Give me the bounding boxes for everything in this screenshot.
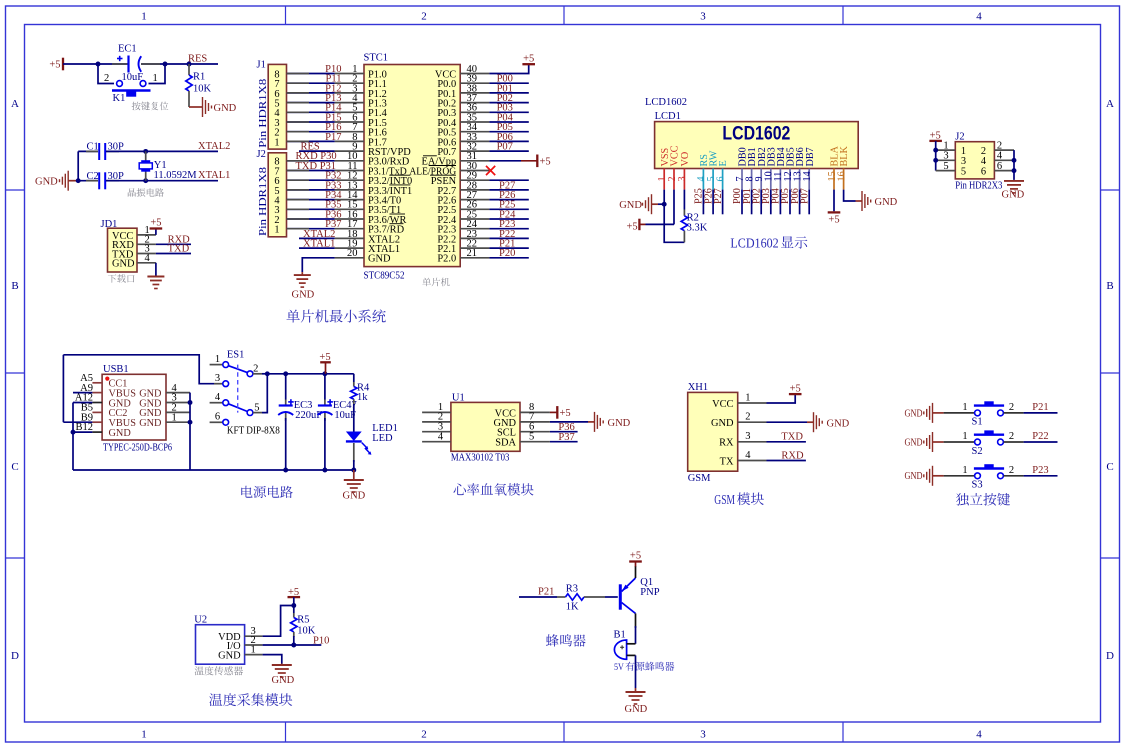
svg-text:2: 2 xyxy=(1009,431,1014,442)
junction dots crystal xyxy=(143,149,148,154)
net TXD wire (gsm) xyxy=(767,441,806,443)
wire net RES row xyxy=(299,150,335,152)
svg-text:GND: GND xyxy=(905,437,923,448)
usb pin stubs left xyxy=(92,382,102,384)
svg-text:GND: GND xyxy=(214,103,237,114)
svg-text:P07: P07 xyxy=(799,188,810,204)
svg-text:+5: +5 xyxy=(540,156,551,167)
svg-text:P07: P07 xyxy=(497,142,513,153)
wire net XTAL1 row xyxy=(299,247,335,249)
svg-text:16: 16 xyxy=(836,171,847,181)
svg-text:4: 4 xyxy=(438,432,444,443)
svg-text:GND: GND xyxy=(272,675,295,686)
push button S1 xyxy=(975,410,981,416)
ground (power) xyxy=(353,470,355,480)
svg-text:1: 1 xyxy=(274,137,279,148)
svg-text:S3: S3 xyxy=(972,480,983,491)
connector J2 box xyxy=(955,142,994,179)
lcd pin stubs + numbers xyxy=(663,169,665,190)
svg-text:1: 1 xyxy=(172,412,177,423)
svg-text:S2: S2 xyxy=(972,446,983,457)
power port +5 (reset) xyxy=(62,58,64,71)
lcd pin16 wire to gnd xyxy=(844,190,856,201)
svg-text:B: B xyxy=(11,280,18,292)
label 心率血氧模块 xyxy=(453,483,533,495)
resistor R1 xyxy=(188,64,190,75)
wire VBUS to switch xyxy=(63,355,214,384)
svg-text:XTAL1: XTAL1 xyxy=(303,239,335,250)
ground (lcd VSS) xyxy=(652,203,659,205)
svg-text:XH1: XH1 xyxy=(688,382,708,393)
capacitor EC47 xyxy=(324,374,326,400)
svg-text:1: 1 xyxy=(141,729,147,741)
svg-text:4: 4 xyxy=(745,450,751,461)
svg-text:TXD: TXD xyxy=(781,432,803,443)
svg-text:1k: 1k xyxy=(357,392,368,403)
svg-text:U2: U2 xyxy=(194,614,207,625)
svg-text:P20: P20 xyxy=(499,248,515,259)
wires J2 to mcu P30-P37 xyxy=(287,160,335,162)
svg-text:GND: GND xyxy=(905,408,923,419)
J2 right wires xyxy=(994,149,1014,151)
svg-text:GND: GND xyxy=(608,418,631,429)
ground (buzzer) xyxy=(635,688,637,692)
mcu right net wires P00-P07 xyxy=(489,82,528,84)
mcu right pin stubs xyxy=(460,73,489,75)
label 温度传感器 xyxy=(195,666,243,675)
svg-text:3: 3 xyxy=(700,729,706,741)
svg-text:GND: GND xyxy=(1002,190,1025,201)
svg-text:P37: P37 xyxy=(558,432,574,443)
svg-text:D: D xyxy=(1106,650,1114,662)
chip U1 box xyxy=(451,402,520,451)
svg-text:4: 4 xyxy=(145,253,151,264)
svg-text:BLK: BLK xyxy=(839,145,850,166)
svg-text:ES1: ES1 xyxy=(227,350,245,361)
label 单片机 xyxy=(422,278,449,287)
wire S2 left xyxy=(944,441,975,443)
capacitor C1 xyxy=(78,150,98,152)
lcd pin15 wire to +5 xyxy=(833,190,835,212)
ground (temp) xyxy=(281,664,283,666)
resistor R3 xyxy=(557,596,566,598)
svg-text:J2: J2 xyxy=(955,132,964,143)
svg-text:6: 6 xyxy=(981,167,986,178)
svg-text:LCD1602: LCD1602 xyxy=(722,123,790,145)
label 温度采集模块 xyxy=(209,693,292,706)
ground (gsm) xyxy=(807,421,814,423)
mcu overlines xyxy=(389,174,410,176)
mcu left pin stubs xyxy=(335,73,364,75)
wires J1 to mcu P10-P17 xyxy=(287,73,335,75)
svg-text:30P: 30P xyxy=(108,142,125,153)
wire from button K1 right xyxy=(149,64,166,84)
mcu STC1 box xyxy=(364,65,460,267)
junction dot crystal gnd xyxy=(76,178,81,183)
svg-text:C1: C1 xyxy=(87,142,99,153)
wire crystal left vertical xyxy=(77,151,79,180)
ground (JD1) xyxy=(155,263,157,277)
svg-text:+5: +5 xyxy=(319,352,330,363)
svg-text:LCD1602: LCD1602 xyxy=(645,97,687,108)
svg-text:P21: P21 xyxy=(538,586,554,597)
svg-text:GND: GND xyxy=(139,418,162,429)
svg-text:LCD1: LCD1 xyxy=(655,111,681,122)
svg-text:GSM: GSM xyxy=(688,473,711,484)
led LED1 xyxy=(346,432,362,442)
svg-text:VO: VO xyxy=(680,152,691,167)
svg-text:STC1: STC1 xyxy=(364,53,389,64)
JD1 pin stubs xyxy=(137,234,156,236)
label 电源电路 xyxy=(241,486,292,498)
lcd wires pins 4-14 + vertical net labels xyxy=(702,190,704,215)
resistor R4 xyxy=(353,374,355,382)
wire buzzer to gnd xyxy=(635,655,637,688)
U2 pin stubs xyxy=(245,635,263,637)
svg-text:1: 1 xyxy=(962,402,967,413)
wire U2 VDD to +5 xyxy=(263,606,294,637)
svg-text:6: 6 xyxy=(715,176,726,181)
svg-text:J1: J1 xyxy=(257,60,266,71)
svg-text:USB1: USB1 xyxy=(103,364,129,375)
svg-text:4: 4 xyxy=(215,392,221,403)
svg-text:+5: +5 xyxy=(828,215,839,226)
wire gsm gnd xyxy=(767,421,808,423)
wire usb GND left vertical xyxy=(73,402,92,404)
resistor R5 xyxy=(293,606,295,614)
svg-text:JD1: JD1 xyxy=(101,219,118,230)
svg-text:B1: B1 xyxy=(614,629,626,640)
svg-text:TXD: TXD xyxy=(168,244,190,255)
svg-text:5V: 5V xyxy=(614,662,625,673)
svg-text:GND: GND xyxy=(35,177,58,188)
svg-text:Pin HDR2X3: Pin HDR2X3 xyxy=(955,180,1002,191)
svg-text:1: 1 xyxy=(215,354,220,365)
svg-text:LED: LED xyxy=(372,433,393,444)
svg-text:VCC: VCC xyxy=(712,399,733,410)
svg-text:GND: GND xyxy=(875,197,898,208)
svg-text:K1: K1 xyxy=(113,93,126,104)
svg-text:2: 2 xyxy=(104,73,109,84)
svg-text:5: 5 xyxy=(254,402,259,413)
resistor R2 xyxy=(683,190,685,210)
power port +5 (buzzer) xyxy=(635,566,637,578)
svg-text:1: 1 xyxy=(962,465,967,476)
power port +5 (gsm) xyxy=(767,395,796,403)
wire +5 rail xyxy=(267,373,354,375)
net RXD wire xyxy=(156,243,191,245)
push button S3 xyxy=(975,473,981,479)
svg-text:P23: P23 xyxy=(1032,465,1048,476)
svg-text:21: 21 xyxy=(467,248,478,259)
capacitor EC1 leads xyxy=(112,63,128,65)
push button K1 xyxy=(117,81,123,87)
svg-text:+5: +5 xyxy=(560,408,571,419)
svg-text:+5: +5 xyxy=(790,383,801,394)
no-connect X pin30 xyxy=(489,170,490,172)
capacitor C2 xyxy=(78,180,98,182)
svg-text:GND: GND xyxy=(292,290,315,301)
wire to button K1 left xyxy=(98,64,114,84)
svg-text:KFT DIP-8X8: KFT DIP-8X8 xyxy=(227,426,280,437)
svg-text:P10: P10 xyxy=(313,635,329,646)
wire S3 left xyxy=(944,475,975,477)
header J2 box xyxy=(268,153,286,237)
svg-text:A: A xyxy=(1106,98,1114,110)
svg-text:20: 20 xyxy=(347,248,358,259)
svg-text:+5: +5 xyxy=(523,53,534,64)
svg-text:R1: R1 xyxy=(193,72,205,83)
wire VBUS net left xyxy=(73,392,92,394)
svg-text:RX: RX xyxy=(719,438,734,449)
svg-text:11.0592M: 11.0592M xyxy=(154,170,198,181)
push button S2 xyxy=(975,439,981,445)
svg-text:GND: GND xyxy=(109,428,132,439)
ground (reset R1) xyxy=(189,106,196,108)
label 独立按键 xyxy=(956,493,1010,506)
svg-text:VCC: VCC xyxy=(670,145,681,166)
wire U2 gnd xyxy=(263,655,282,664)
power port +5 (power rail) xyxy=(320,361,331,363)
net RXD wire (gsm) xyxy=(767,460,806,462)
svg-text:LCD1602: LCD1602 xyxy=(730,236,778,251)
svg-text:2: 2 xyxy=(421,729,427,741)
capacitor EC3 xyxy=(285,374,287,400)
svg-text:GND: GND xyxy=(905,471,923,482)
wire switch pin5 to rail xyxy=(253,412,262,414)
svg-text:P21: P21 xyxy=(1032,402,1048,413)
svg-text:14: 14 xyxy=(802,171,813,181)
wire U2 I/O net P10 xyxy=(263,644,322,646)
svg-text:1: 1 xyxy=(251,644,256,655)
svg-text:S1: S1 xyxy=(972,417,983,428)
chip U2 box xyxy=(196,625,245,665)
svg-text:3: 3 xyxy=(700,11,706,23)
lcd LCD1 box xyxy=(655,122,859,169)
wire S1 left xyxy=(944,412,975,414)
power port +5 (mcu VCC) xyxy=(489,64,528,73)
label 蜂鸣器 xyxy=(546,634,586,647)
power port +5 (U1) xyxy=(550,411,557,413)
svg-text:J2: J2 xyxy=(257,149,266,160)
svg-text:P2.0: P2.0 xyxy=(437,254,456,265)
label 晶振电路 xyxy=(128,188,164,197)
wire RES main xyxy=(63,63,128,65)
net P37 wire xyxy=(550,441,578,443)
svg-text:DB7: DB7 xyxy=(805,147,816,166)
J2 left wires xyxy=(936,149,956,151)
wire S1 right / net P21 xyxy=(1004,412,1024,414)
svg-text:1K: 1K xyxy=(566,602,579,613)
svg-text:E: E xyxy=(718,160,729,166)
svg-text:+5: +5 xyxy=(49,60,60,71)
svg-text:+5: +5 xyxy=(627,221,638,232)
svg-text:1: 1 xyxy=(274,225,279,236)
usb right pin stubs xyxy=(166,392,190,394)
svg-text:1: 1 xyxy=(153,73,158,84)
svg-text:10uF: 10uF xyxy=(122,72,144,83)
svg-text:TX: TX xyxy=(720,456,734,467)
XH1 pin stubs xyxy=(738,402,767,404)
svg-text:10K: 10K xyxy=(193,84,212,95)
power port +5 (JD1) xyxy=(155,229,157,235)
svg-text:GND: GND xyxy=(625,704,648,715)
svg-text:XTAL2: XTAL2 xyxy=(198,141,230,152)
svg-text:D: D xyxy=(11,650,19,662)
svg-text:3: 3 xyxy=(677,176,688,181)
svg-text:P22: P22 xyxy=(1032,431,1048,442)
wire mcu GND pin20 xyxy=(302,258,334,272)
svg-text:TYPEC-250D-BCP6: TYPEC-250D-BCP6 xyxy=(103,443,172,454)
svg-text:A: A xyxy=(11,98,19,110)
svg-text:4: 4 xyxy=(976,11,982,23)
svg-text:GND: GND xyxy=(218,651,241,662)
svg-text:C: C xyxy=(11,461,18,473)
svg-text:MAX30102 T03: MAX30102 T03 xyxy=(451,452,510,463)
wire Q1 collector to buzzer xyxy=(635,613,637,628)
svg-text:6: 6 xyxy=(997,161,1002,172)
svg-text:1: 1 xyxy=(745,392,750,403)
svg-text:U1: U1 xyxy=(452,392,465,403)
wire net XTAL2 row xyxy=(299,237,335,239)
svg-text:R3: R3 xyxy=(566,583,578,594)
svg-text:GSM: GSM xyxy=(714,492,735,507)
svg-text:P27: P27 xyxy=(713,188,724,204)
wire switch pin2 to rail xyxy=(253,373,262,375)
svg-text:C2: C2 xyxy=(87,171,99,182)
capacitor EC1 xyxy=(127,56,129,73)
power port +5 (EA/Vpp pin31) xyxy=(489,160,521,162)
svg-text:3: 3 xyxy=(745,431,750,442)
svg-text:PNP: PNP xyxy=(640,587,659,598)
wire U1 gnd xyxy=(550,421,588,423)
header J1 box xyxy=(268,64,286,149)
svg-text:Pin HDR1X8: Pin HDR1X8 xyxy=(258,79,269,148)
svg-text:B: B xyxy=(1106,280,1113,292)
wire S2 right / net P22 xyxy=(1004,441,1024,443)
svg-text:5: 5 xyxy=(961,167,966,178)
svg-text:RXD: RXD xyxy=(781,450,804,461)
net TXD wire xyxy=(156,253,191,255)
wire power gnd rail xyxy=(73,469,354,471)
svg-text:1: 1 xyxy=(962,431,967,442)
svg-text:6: 6 xyxy=(215,412,220,423)
svg-text:STC89C52: STC89C52 xyxy=(364,271,405,282)
svg-text:3: 3 xyxy=(215,373,220,384)
ground (J2) xyxy=(1013,180,1015,181)
label 按键复位 xyxy=(132,102,169,111)
svg-text:2: 2 xyxy=(1009,402,1014,413)
label 单片机最小系统 xyxy=(287,309,386,322)
svg-text:5: 5 xyxy=(943,161,948,172)
U1 right pin stubs xyxy=(520,411,550,413)
svg-text:Pin HDR1X8: Pin HDR1X8 xyxy=(258,167,269,236)
connector JD1 box xyxy=(108,228,138,272)
svg-text:R5: R5 xyxy=(297,615,309,626)
svg-text:GND: GND xyxy=(368,254,391,265)
svg-text:4: 4 xyxy=(976,729,982,741)
wire S3 right / net P23 xyxy=(1004,475,1024,477)
svg-text:P17: P17 xyxy=(325,132,341,143)
transistor Q1 xyxy=(619,584,622,609)
svg-text:GND: GND xyxy=(711,418,734,429)
svg-text:2: 2 xyxy=(253,364,258,375)
net P36 wire xyxy=(550,431,578,433)
svg-text:2: 2 xyxy=(667,176,678,181)
U1 left pin stubs xyxy=(422,411,451,413)
svg-text:RES: RES xyxy=(188,54,207,65)
junction dots reset xyxy=(96,62,101,67)
svg-text:5: 5 xyxy=(529,432,534,443)
ground (U1) xyxy=(588,421,595,423)
svg-text:30P: 30P xyxy=(108,171,125,182)
svg-text:XTAL1: XTAL1 xyxy=(198,170,230,181)
gsm XH1 box xyxy=(688,392,738,471)
svg-text:10uF: 10uF xyxy=(334,410,356,421)
svg-text:2: 2 xyxy=(1009,465,1014,476)
svg-text:1: 1 xyxy=(141,11,147,23)
crystal Y1 xyxy=(145,151,147,161)
svg-text:+5: +5 xyxy=(630,551,641,562)
svg-text:GND: GND xyxy=(619,200,642,211)
svg-text:EC1: EC1 xyxy=(118,44,137,55)
svg-text:2: 2 xyxy=(745,412,750,423)
label 下载口 xyxy=(108,274,135,283)
wire PSEN pin29 xyxy=(489,179,528,181)
svg-text:2: 2 xyxy=(421,11,427,23)
svg-text:GND: GND xyxy=(827,418,850,429)
svg-text:+5: +5 xyxy=(150,218,161,229)
lcd pin2 wire to +5 xyxy=(646,223,675,225)
wire usb right gnd vertical xyxy=(189,393,191,470)
ground (mcu) xyxy=(301,272,303,275)
svg-text:GND: GND xyxy=(112,259,135,270)
mcu right net wires P27-P20 xyxy=(489,189,528,191)
svg-text:GND: GND xyxy=(343,491,366,502)
svg-text:C: C xyxy=(1106,461,1113,473)
usb connector USB1 box xyxy=(102,374,166,440)
lcd pin1 wire to gnd and R2 bottom xyxy=(664,190,684,243)
svg-text:3.3K: 3.3K xyxy=(687,223,708,234)
svg-text:SDA: SDA xyxy=(495,438,516,449)
